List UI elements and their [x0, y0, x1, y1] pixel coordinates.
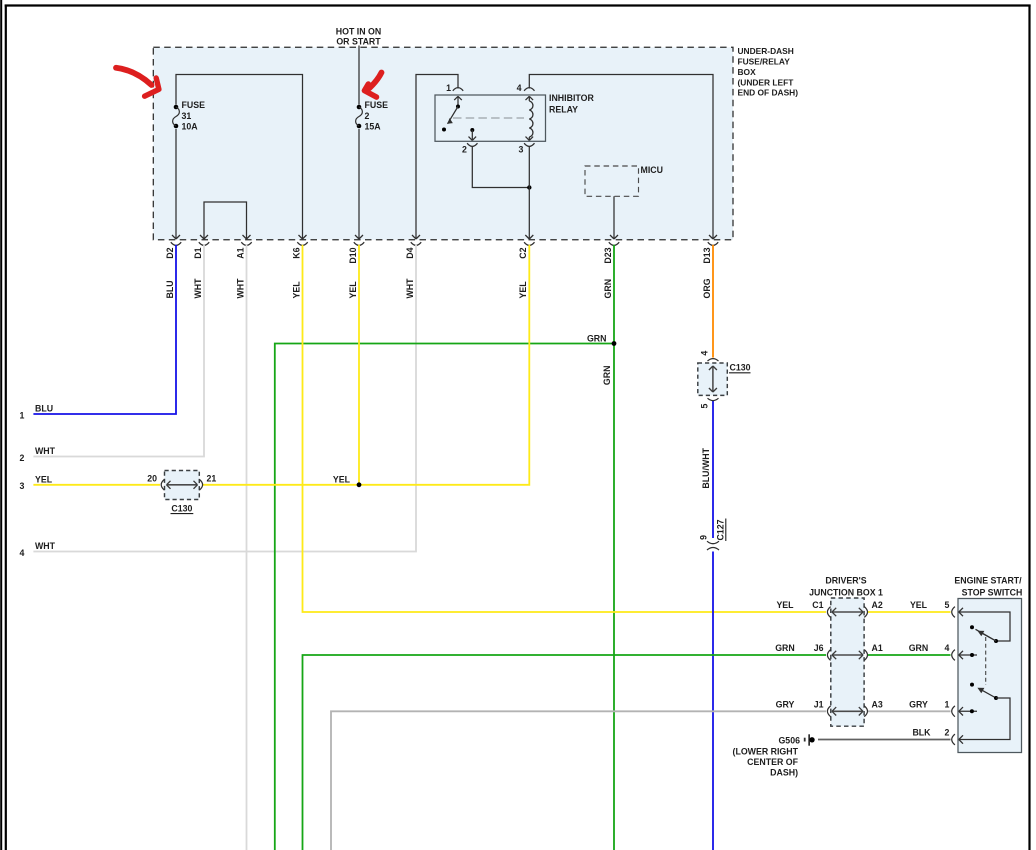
svg-text:UNDER-DASH: UNDER-DASH	[738, 46, 794, 56]
svg-text:A1: A1	[235, 247, 245, 258]
svg-text:BLU: BLU	[35, 404, 53, 414]
svg-text:WHT: WHT	[405, 278, 415, 299]
svg-text:GRN: GRN	[909, 643, 929, 653]
svg-text:WHT: WHT	[235, 278, 245, 299]
svg-text:STOP SWITCH: STOP SWITCH	[962, 587, 1023, 597]
svg-text:GRN: GRN	[603, 279, 613, 299]
svg-text:GRY: GRY	[909, 699, 928, 709]
svg-text:FUSE/RELAY: FUSE/RELAY	[738, 57, 791, 67]
svg-text:BLK: BLK	[912, 728, 931, 738]
svg-text:HOT IN ON: HOT IN ON	[336, 26, 381, 36]
svg-text:5: 5	[945, 600, 950, 610]
svg-text:GRN: GRN	[775, 643, 795, 653]
svg-text:YEL: YEL	[518, 281, 528, 299]
svg-text:YEL: YEL	[291, 281, 301, 299]
svg-text:BLU/WHT: BLU/WHT	[701, 447, 711, 488]
svg-text:5: 5	[700, 403, 710, 408]
svg-text:D13: D13	[702, 247, 712, 263]
svg-text:GRN: GRN	[587, 333, 607, 343]
svg-text:INHIBITOR: INHIBITOR	[549, 93, 594, 103]
svg-text:D1: D1	[193, 247, 203, 258]
svg-text:4: 4	[700, 351, 710, 356]
svg-text:C127: C127	[716, 519, 726, 540]
svg-text:D2: D2	[165, 247, 175, 258]
svg-text:21: 21	[207, 473, 217, 483]
svg-text:1: 1	[20, 410, 25, 420]
svg-text:C2: C2	[518, 247, 528, 258]
svg-text:CENTER OF: CENTER OF	[747, 757, 798, 767]
svg-text:K6: K6	[291, 247, 301, 258]
svg-text:YEL: YEL	[910, 600, 928, 610]
svg-text:MICU: MICU	[641, 165, 663, 175]
svg-text:2: 2	[365, 111, 370, 121]
svg-text:WHT: WHT	[35, 541, 56, 551]
svg-text:9: 9	[699, 535, 709, 540]
svg-text:YEL: YEL	[348, 281, 358, 299]
svg-text:2: 2	[20, 453, 25, 463]
svg-text:15A: 15A	[365, 121, 382, 131]
svg-text:BOX: BOX	[738, 67, 757, 77]
svg-text:BLU: BLU	[165, 280, 175, 298]
svg-text:FUSE: FUSE	[182, 100, 206, 110]
svg-text:YEL: YEL	[35, 475, 53, 485]
svg-text:ORG: ORG	[702, 278, 712, 298]
svg-text:G506: G506	[778, 735, 800, 745]
svg-text:C130: C130	[730, 362, 751, 372]
svg-text:1: 1	[945, 699, 950, 709]
svg-text:WHT: WHT	[35, 446, 56, 456]
svg-text:3: 3	[519, 144, 524, 154]
svg-text:ENGINE START/: ENGINE START/	[954, 576, 1022, 586]
svg-text:END OF DASH): END OF DASH)	[738, 88, 799, 98]
svg-text:D4: D4	[405, 247, 415, 258]
svg-text:RELAY: RELAY	[549, 104, 578, 114]
svg-text:A3: A3	[872, 699, 883, 709]
svg-text:J6: J6	[814, 643, 824, 653]
svg-text:A1: A1	[872, 643, 883, 653]
svg-text:YEL: YEL	[333, 475, 351, 485]
svg-text:JUNCTION BOX 1: JUNCTION BOX 1	[809, 587, 883, 597]
svg-text:C130: C130	[171, 503, 192, 513]
svg-text:2: 2	[945, 728, 950, 738]
svg-text:20: 20	[147, 473, 157, 483]
svg-text:DASH): DASH)	[770, 768, 798, 778]
svg-text:J1: J1	[814, 699, 824, 709]
svg-text:YEL: YEL	[776, 600, 794, 610]
svg-text:DRIVER'S: DRIVER'S	[825, 576, 866, 586]
svg-text:WHT: WHT	[193, 278, 203, 299]
svg-text:OR START: OR START	[336, 37, 381, 47]
svg-text:D10: D10	[348, 247, 358, 263]
svg-text:1: 1	[446, 83, 451, 93]
svg-text:3: 3	[20, 481, 25, 491]
svg-text:31: 31	[182, 111, 192, 121]
svg-text:FUSE: FUSE	[365, 100, 389, 110]
svg-text:(LOWER RIGHT: (LOWER RIGHT	[733, 747, 799, 757]
svg-text:(UNDER LEFT: (UNDER LEFT	[738, 77, 795, 87]
svg-text:10A: 10A	[182, 121, 199, 131]
svg-text:D23: D23	[603, 247, 613, 263]
svg-text:4: 4	[517, 83, 522, 93]
svg-text:4: 4	[20, 548, 25, 558]
svg-text:4: 4	[945, 643, 950, 653]
svg-text:2: 2	[462, 144, 467, 154]
svg-text:GRN: GRN	[602, 366, 612, 386]
svg-text:C1: C1	[812, 600, 823, 610]
svg-text:GRY: GRY	[776, 699, 795, 709]
svg-text:A2: A2	[872, 600, 883, 610]
